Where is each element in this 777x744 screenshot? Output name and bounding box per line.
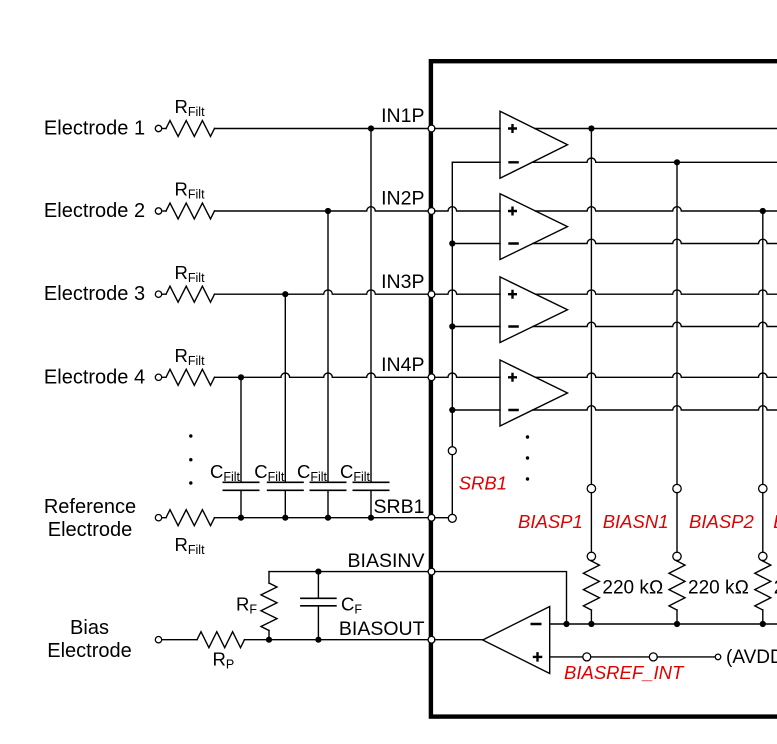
resistor RF [268,572,270,583]
op-amp buffer U1B [500,194,568,260]
resistor RFilt (ch4) [166,369,215,385]
junction CF/BIASOUT [315,637,321,643]
wire CFilt to SRB1 net ch4 [240,490,242,517]
resistor 220k (column 1) [590,559,592,562]
junction CFilt/SRB1 ch1 [368,515,374,521]
op-amp bias amplifier U2 [483,607,550,674]
capacitor CFilt (ch3) [268,482,303,490]
wire RFilt to pin IN1P [215,128,429,130]
svg-text:Electrode: Electrode [48,519,133,541]
svg-text:CFilt: CFilt [210,461,241,484]
svg-text:BIASN2: BIASN2 [773,511,777,532]
resistor 220k (column 3) [762,559,764,562]
svg-text:Electrode 4: Electrode 4 [44,366,145,388]
junction CFilt/SRB1 ch2 [325,515,331,521]
wire CFilt branch ch1 [370,129,372,483]
wire + row ch3 to bias resistor matrix [536,290,777,294]
resistor RFilt (ref) [166,510,215,526]
junction node ch1/CFilt [368,125,374,131]
wire + row ch1 to bias resistor matrix [535,128,777,130]
svg-text:IN1P: IN1P [381,105,424,127]
terminal Electrode 4 [155,374,161,380]
wire terminal to RFilt (ch4) [162,376,166,378]
wire BIASINV pin to summing node [435,572,567,624]
svg-text:RFilt: RFilt [175,262,206,285]
wire + row ch4 to bias resistor matrix [535,373,777,377]
svg-text:CF: CF [341,594,362,617]
wire RFilt to pin IN4P [215,373,429,377]
op-amp buffer U1D [500,360,568,426]
junction CFilt/SRB1 ch4 [238,515,244,521]
wire - row ch3 to bias resistor matrix [533,322,777,326]
wire - row ch1 to bias resistor matrix [532,158,777,162]
resistor RFilt (ch1) [166,121,215,137]
svg-text:CFilt: CFilt [297,461,328,484]
wire op-amp U1D - input to SRB1 net [452,409,500,411]
svg-text:BIASN1: BIASN1 [603,511,669,532]
resistor RFilt (ch3) [166,286,215,302]
junction RF/BIASOUT [266,637,272,643]
capacitor CF [317,572,319,599]
svg-text:CFilt: CFilt [340,461,371,484]
svg-text:(AVDD: (AVDD [726,647,777,668]
wire pin to op-amp + input (ch3) [435,290,500,294]
wire column 2 from row to switch [676,162,678,484]
wire pin to op-amp + input (ch4) [435,373,500,377]
capacitor CFilt (ch2) [310,482,345,490]
wire terminal to RFilt (ch1) [162,128,166,130]
switch BIASP2 [759,484,767,492]
wire terminal to RFilt (ref) [162,517,166,519]
op-amp buffer U1C [500,277,568,343]
pin BIASOUT [428,636,435,643]
svg-text:220 kΩ: 220 kΩ [602,578,663,599]
terminal Electrode 2 [155,208,161,214]
pin IN3P [428,291,435,298]
pin SRB1 [428,514,435,521]
terminal Bias Electrode [155,637,161,643]
junction BIASINV net/summing node [563,621,569,627]
svg-text:Reference: Reference [44,496,136,518]
ellipsis (more channels, inside) [526,435,529,438]
capacitor CFilt (ch1) [353,482,388,490]
pin IN1P [428,125,435,132]
svg-text:Electrode 2: Electrode 2 [44,200,145,222]
wire op-amp U1B - input to SRB1 net [452,243,500,245]
svg-text:RF: RF [236,594,257,617]
junction node ch3/CFilt [282,291,288,297]
svg-text:RFilt: RFilt [175,96,206,119]
wire CFilt to SRB1 net ch3 [284,490,286,517]
junction CF/BIASINV [315,569,321,575]
svg-text:CFilt: CFilt [254,461,285,484]
junction - input ch4/SRB1 net [449,407,455,413]
junction node ch4/CFilt [238,374,244,380]
wire + row ch2 to bias resistor matrix [535,207,777,211]
terminal Electrode 3 [155,291,161,297]
resistor RFilt (ch2) [166,203,215,219]
wire CFilt to SRB1 net ch2 [327,490,329,517]
wire pin to op-amp + input (ch2) [435,207,500,211]
switch BIASN1 [673,484,681,492]
wire RFilt to pin IN3P [215,290,429,294]
resistor RP [197,632,245,648]
ellipsis (more channels, left) [189,434,192,437]
svg-text:IN4P: IN4P [381,354,424,376]
wire op-amp U1A - input to SRB1 net [452,161,500,163]
svg-text:Electrode 3: Electrode 3 [44,283,145,305]
svg-text:220 kΩ: 220 kΩ [688,578,749,599]
wire CFilt to SRB1 net ch1 [370,490,372,517]
capacitor CFilt (ch4) [223,482,258,490]
switch BIASREF_INT [583,653,591,661]
wire RP to BIASOUT pin [245,639,429,641]
wire SRB1 switch to pin [435,517,449,519]
wire CFilt branch ch4 [240,377,242,482]
svg-text:RFilt: RFilt [175,345,206,368]
svg-text:BIASINV: BIASINV [348,550,425,572]
pin IN2P [428,208,435,215]
svg-text:BIASP1: BIASP1 [518,511,583,532]
switch BIASP1 [587,484,595,492]
wire SRB1 internal net (vertical) [452,162,500,450]
junction - input ch3/SRB1 net [449,323,455,329]
pin BIASINV [428,568,435,575]
wire BIASINV internal net [550,623,777,625]
svg-text:BIASP2: BIASP2 [689,511,754,532]
junction CFilt/SRB1 ch3 [282,515,288,521]
wire CFilt branch ch2 [327,211,329,482]
junction - input ch2/SRB1 net [449,240,455,246]
svg-text:RP: RP [213,649,235,672]
junction column 3/BIASINV net [760,621,766,627]
svg-text:RFilt: RFilt [175,534,206,557]
wire - row ch2 to bias resistor matrix [533,239,777,243]
svg-text:Bias: Bias [70,617,109,639]
wire SRB1 net to pin [215,517,429,519]
wire terminal to RFilt (ch2) [162,210,166,212]
wire - row ch4 to bias resistor matrix [533,406,777,410]
svg-text:Electrode: Electrode [47,640,132,662]
wire terminal to RFilt (ch3) [162,293,166,295]
junction + row ch2/column [760,208,766,214]
junction column 2/BIASINV net [674,621,680,627]
svg-text:RFilt: RFilt [175,179,206,202]
terminal AVDD/2 [715,654,721,660]
wire BIASREF to AVDD/2 terminal [657,656,715,658]
junction column 1/BIASINV net [588,621,594,627]
svg-text:IN3P: IN3P [381,271,424,293]
wire RFilt to pin IN2P [215,207,429,211]
wire pin to op-amp + input (ch1) [435,128,500,130]
wire CFilt branch ch3 [284,294,286,482]
wire op-amp U1C - input to SRB1 net [452,326,500,328]
junction - row ch1/column [674,159,680,165]
wire U2 output to BIASOUT pin [435,639,483,641]
switch SRB1 (internal) [448,447,456,455]
svg-text:Electrode 1: Electrode 1 [44,118,145,140]
wire U2 + input to BIASREF [550,656,583,658]
wire column 3 from row to switch [762,211,764,485]
junction + row ch1/column [588,125,594,131]
wire terminal to RP [162,639,197,641]
svg-text:SRB1: SRB1 [374,496,425,518]
svg-text:IN2P: IN2P [381,188,424,210]
svg-text:SRB1: SRB1 [459,473,507,494]
svg-text:BIASOUT: BIASOUT [339,618,425,640]
pin IN4P [428,374,435,381]
resistor 220k (column 2) [676,559,678,562]
terminal Reference Electrode [155,515,161,521]
terminal Electrode 1 [155,125,161,131]
junction node ch2/CFilt [325,208,331,214]
svg-text:BIASREF_INT: BIASREF_INT [564,662,685,683]
IC boundary U1 (ADC front-end) [431,61,777,716]
op-amp buffer U1A [500,111,568,178]
wire BIASINV feedback [269,571,428,573]
wire column 1 from row to switch [590,129,592,485]
